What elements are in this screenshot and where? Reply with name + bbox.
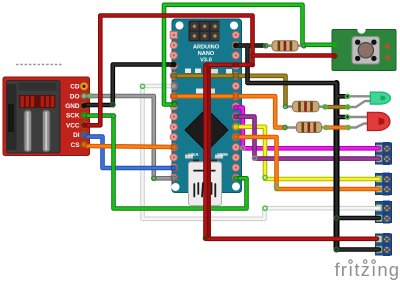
svg-text:VCC: VCC xyxy=(66,122,80,129)
LED D1 green legs xyxy=(349,96,371,107)
wire olive: nano across to resistor R1 xyxy=(174,76,286,105)
fritzing logo text xyxy=(335,259,400,280)
svg-text:DO: DO xyxy=(70,93,80,100)
green wire to button end cap xyxy=(332,42,338,48)
screw terminal block J3 xyxy=(376,201,392,224)
wire magenta: nano to terminal J1-1 xyxy=(236,108,379,149)
USA / 2009 text xyxy=(188,152,228,158)
tactile button breakout board SW1 xyxy=(332,25,396,70)
svg-text:CS: CS xyxy=(71,142,81,149)
wire orange: SD CS to nano xyxy=(87,146,174,147)
screw terminal block J4 xyxy=(376,233,392,256)
wire black: SD GND to nano GND xyxy=(87,65,174,106)
wire purple: nano to terminal J1-2 xyxy=(236,117,379,159)
wire orange: nano across to resistor R2 xyxy=(174,96,285,127)
SD pin labels xyxy=(65,84,80,149)
nano left pin header pads xyxy=(170,31,177,181)
LED D1 green body xyxy=(370,92,390,104)
SD pin rings xyxy=(80,82,88,148)
wire yellow: nano to terminal J2-1 xyxy=(236,127,379,179)
wire end caps on pads xyxy=(81,43,238,181)
USB connector xyxy=(189,160,222,206)
svg-text:ARDUINO: ARDUINO xyxy=(193,45,220,51)
wire red: 5V rail xyxy=(87,16,378,242)
nano small SMD parts xyxy=(185,69,232,159)
wire blue: SD DI to nano xyxy=(87,137,174,168)
mounting holes xyxy=(176,22,184,30)
micro SD card module U_SD xyxy=(3,77,90,156)
screw terminal block J2 xyxy=(376,173,392,196)
LED D2 red body xyxy=(367,112,390,130)
svg-text:GND: GND xyxy=(65,103,80,110)
wire green: nano D13 to SD SCK (long route) xyxy=(87,116,247,209)
red wire to button end cap xyxy=(332,53,338,59)
nano silkscreen text xyxy=(193,45,220,64)
wire bendpoint markers xyxy=(88,43,350,251)
svg-text:2009: 2009 xyxy=(217,152,228,158)
svg-text:CD: CD xyxy=(70,84,80,91)
orange jumper: R2 to red LED leg xyxy=(326,125,348,129)
olive jumper: R1 to green LED leg xyxy=(325,105,348,109)
wire green: nano D5 to button (long top route) xyxy=(164,5,334,105)
Arduino Nano U1 board xyxy=(172,19,242,193)
nano right pin header pads xyxy=(232,31,239,181)
svg-text:USA: USA xyxy=(188,152,199,158)
resistor R1 (green LED) xyxy=(286,101,325,112)
wire black: nano GND right rail xyxy=(236,46,379,250)
resistor R2 (red LED) xyxy=(285,122,326,133)
wire orange2: nano to terminal J2-2 xyxy=(236,137,379,189)
screw terminal block J1 xyxy=(376,142,392,165)
ICSP header xyxy=(189,21,220,42)
wire white: nano D3 to terminal J3-1 xyxy=(143,86,380,219)
svg-text:SCK: SCK xyxy=(66,113,80,120)
sd card outline dashes xyxy=(16,64,62,66)
LED D2 red legs xyxy=(349,117,369,128)
wire gray: SD DO to nano xyxy=(87,96,174,178)
ATmega chip (diamond) xyxy=(185,109,228,152)
svg-text:NANO: NANO xyxy=(198,51,215,57)
resistor R3 (button pulldown) xyxy=(266,41,304,51)
svg-text:DI: DI xyxy=(73,132,80,139)
